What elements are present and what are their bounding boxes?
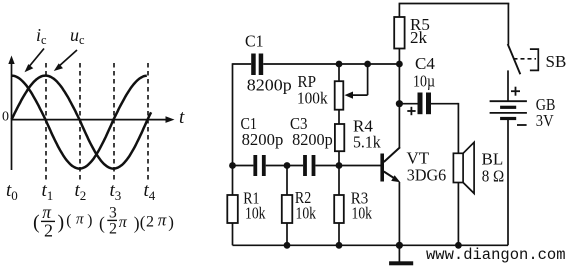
potentiometer RP body bbox=[335, 81, 344, 110]
wire R5 bottom stub bbox=[398, 49, 400, 65]
svg-text:(: ( bbox=[66, 212, 71, 229]
potentiometer RP arrowhead bbox=[345, 92, 354, 99]
wire R2 top stub bbox=[286, 166, 288, 196]
svg-text:): ) bbox=[58, 212, 65, 234]
svg-text:2: 2 bbox=[44, 220, 53, 240]
capacitor C1 top plates bbox=[251, 54, 263, 76]
wire mid row 3 (base wire) bbox=[315, 165, 380, 167]
wire mid row 1 bbox=[233, 165, 254, 167]
junction RP top node bbox=[336, 61, 343, 68]
resistor R3 bbox=[334, 195, 344, 223]
node t4 dashed line bbox=[147, 63, 149, 182]
battery plus sign bbox=[511, 87, 520, 96]
wire R3 bottom stub bbox=[338, 223, 340, 245]
svg-text:2k: 2k bbox=[410, 28, 428, 47]
arrow to uc curve bbox=[54, 50, 77, 71]
node t1 dashed line bbox=[45, 63, 47, 182]
wire top main left bbox=[233, 63, 252, 65]
svg-text:t: t bbox=[179, 107, 185, 128]
transistor VT emitter line bbox=[384, 172, 397, 180]
wire wiper horizontal bbox=[349, 94, 368, 96]
wire right rail switch top bbox=[507, 4, 509, 45]
svg-text:0: 0 bbox=[2, 109, 9, 124]
x axis bbox=[12, 116, 175, 123]
svg-text:8 Ω: 8 Ω bbox=[482, 167, 505, 186]
wire wiper vertical bbox=[367, 64, 369, 95]
wire R3 top stub bbox=[338, 166, 340, 196]
switch SB bracket bbox=[530, 49, 538, 70]
C4 plus sign bbox=[407, 107, 415, 115]
wire left rail lower bbox=[232, 223, 234, 245]
transistor VT collector line bbox=[384, 147, 400, 162]
switch SB dashed link bbox=[514, 58, 537, 60]
svg-text:www.diangon.com: www.diangon.com bbox=[426, 246, 566, 264]
svg-text:10µ: 10µ bbox=[413, 72, 435, 91]
svg-text:3: 3 bbox=[109, 204, 117, 221]
y axis bbox=[8, 56, 14, 171]
svg-text:10k: 10k bbox=[296, 203, 317, 222]
junction R2 bottom rail bbox=[284, 242, 291, 249]
node t2 dashed line bbox=[79, 63, 81, 182]
resistor R5 bbox=[394, 17, 404, 49]
svg-text:C1: C1 bbox=[245, 32, 264, 51]
svg-text:(: ( bbox=[140, 213, 146, 232]
junction left rail / C1b node bbox=[229, 162, 236, 169]
svg-text:2: 2 bbox=[146, 213, 154, 230]
junction wiper node bbox=[364, 61, 371, 68]
resistor R1 bbox=[227, 195, 238, 223]
wire C4 left bbox=[399, 103, 417, 105]
svg-text:5.1k: 5.1k bbox=[353, 133, 381, 152]
resistor R4 bbox=[335, 124, 344, 151]
capacitor C3 plates bbox=[303, 155, 315, 176]
svg-text:π: π bbox=[42, 202, 52, 222]
junction emitter / ground node bbox=[396, 242, 403, 249]
svg-text:C4: C4 bbox=[415, 54, 435, 73]
formula (pi/2)(pi)(3/2 pi)(2 pi) bbox=[33, 202, 174, 240]
svg-text:2: 2 bbox=[109, 220, 117, 237]
wire RP-R4 bbox=[338, 110, 340, 124]
curve ic bbox=[12, 76, 147, 169]
junction C3 / R4 / R3 / base node bbox=[336, 162, 343, 169]
svg-text:8200p: 8200p bbox=[292, 130, 333, 149]
transistor VT base bar bbox=[380, 154, 384, 182]
svg-text:10k: 10k bbox=[245, 203, 266, 222]
switch SB blade bbox=[508, 44, 521, 74]
speaker BL box bbox=[453, 153, 463, 182]
wire battery bottom to rail bbox=[507, 120, 509, 245]
arrow to ic curve bbox=[25, 49, 45, 73]
svg-text:100k: 100k bbox=[297, 89, 328, 108]
svg-text:(: ( bbox=[99, 213, 105, 233]
svg-text:π: π bbox=[158, 211, 167, 230]
wire R5 top stub bbox=[398, 4, 400, 18]
battery minus sign bbox=[517, 124, 527, 126]
wire left rail upper bbox=[232, 63, 234, 195]
wire RP top stub bbox=[338, 64, 340, 81]
wire speaker top bbox=[457, 103, 459, 153]
ground symbol bbox=[389, 261, 413, 265]
junction C1b-C3 / R2 node bbox=[284, 162, 291, 169]
svg-text:3DG6: 3DG6 bbox=[407, 166, 446, 185]
wire top top bbox=[399, 3, 510, 5]
junction BL bottom rail bbox=[455, 242, 462, 249]
svg-text:(: ( bbox=[33, 212, 40, 234]
node t3 dashed line bbox=[113, 63, 115, 182]
wire ground stub bbox=[398, 245, 400, 261]
junction R3 bottom rail bbox=[336, 242, 343, 249]
svg-text:10k: 10k bbox=[352, 203, 373, 222]
wire R4 bottom stub bbox=[338, 151, 340, 165]
wire collector rail bbox=[398, 64, 400, 148]
wire mid row 2 bbox=[266, 165, 303, 167]
wire R2 bottom stub bbox=[286, 223, 288, 245]
capacitor C1b plates bbox=[253, 155, 265, 176]
svg-text:π: π bbox=[119, 214, 128, 231]
svg-text:): ) bbox=[87, 212, 92, 229]
svg-text:π: π bbox=[76, 212, 84, 228]
svg-text:8200p: 8200p bbox=[247, 76, 292, 95]
junction R5 bottom / collector node bbox=[396, 61, 403, 68]
battery GB plates bbox=[490, 101, 527, 120]
speaker BL horn bbox=[463, 142, 474, 193]
wire speaker bottom bbox=[457, 183, 459, 246]
svg-text:): ) bbox=[134, 213, 140, 233]
wire emitter vertical bbox=[398, 182, 400, 245]
resistor R2 bbox=[282, 195, 293, 223]
svg-text:8200p: 8200p bbox=[242, 130, 284, 149]
wire top main right of C1 bbox=[263, 63, 399, 65]
svg-text:3V: 3V bbox=[536, 111, 554, 130]
wire bottom rail bbox=[233, 244, 509, 246]
svg-text:SB: SB bbox=[546, 52, 567, 71]
wire C4 right bbox=[431, 103, 458, 105]
curve uc bbox=[12, 76, 152, 169]
svg-text:): ) bbox=[168, 213, 174, 232]
transistor VT emitter arrowhead bbox=[391, 175, 400, 182]
junction C4 / collector node bbox=[396, 100, 403, 107]
wire switch bottom to battery bbox=[507, 70, 509, 101]
capacitor C4 plates bbox=[418, 93, 432, 115]
